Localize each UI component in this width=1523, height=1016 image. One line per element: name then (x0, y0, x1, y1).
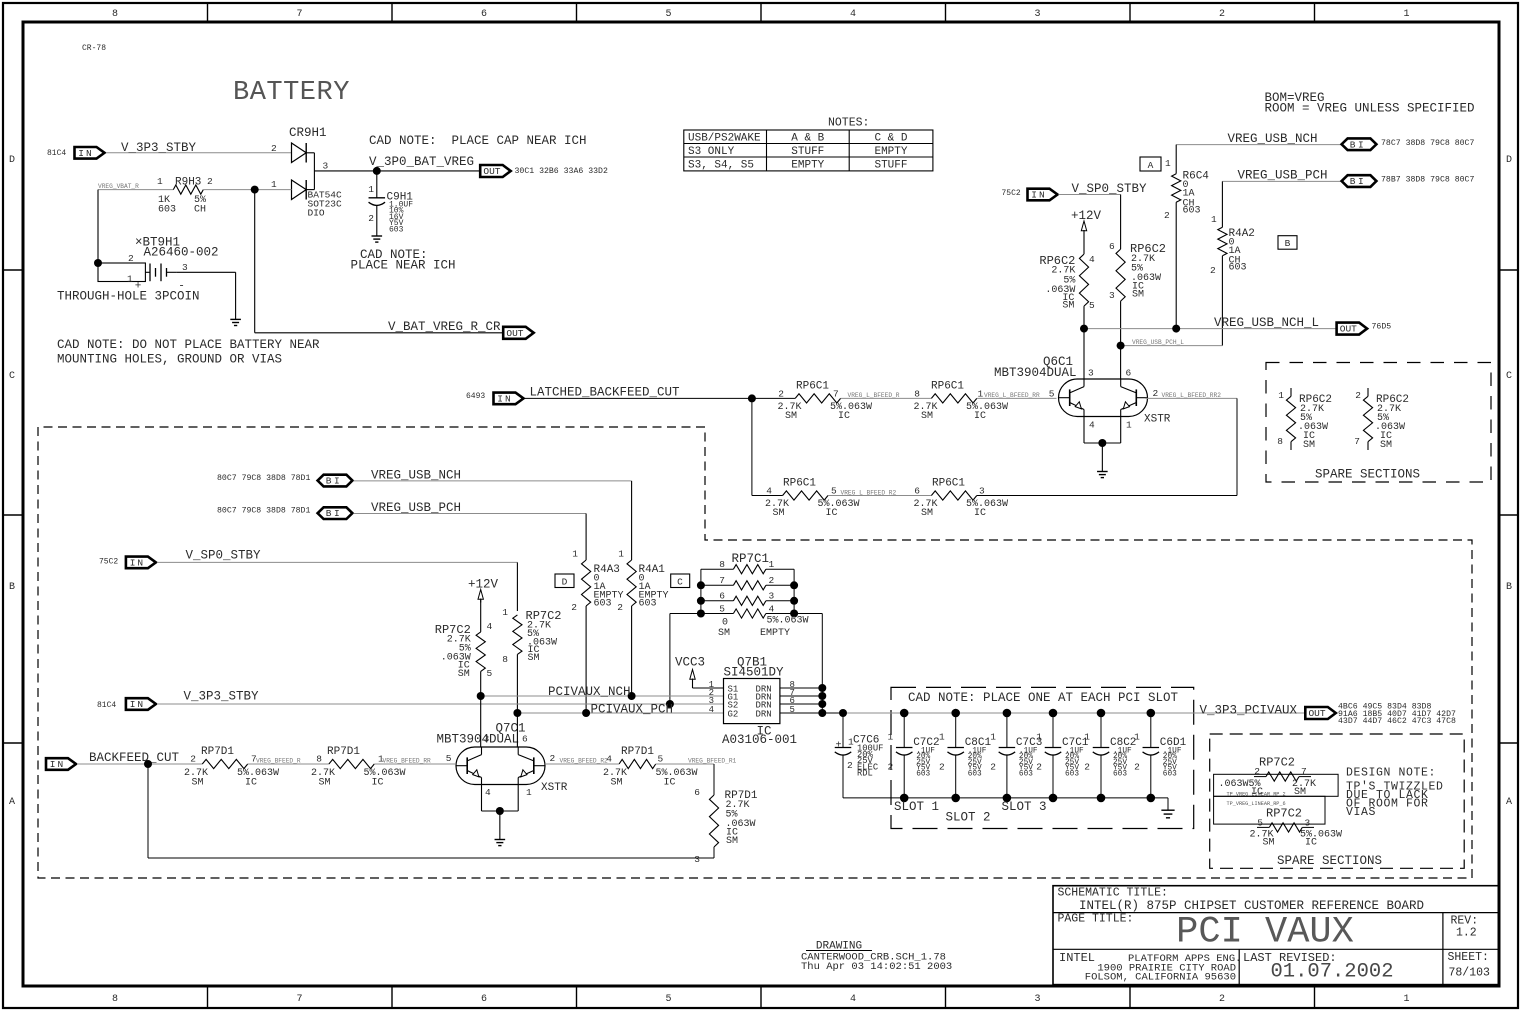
svg-text:SM: SM (319, 778, 331, 789)
wire Q6C1 left collector (1083, 329, 1085, 379)
svg-text:RP7C2: RP7C2 (1266, 807, 1302, 821)
svg-text:C: C (677, 577, 683, 588)
svg-text:1: 1 (939, 732, 945, 743)
svg-text:6493: 6493 (466, 392, 485, 401)
svg-text:SM: SM (785, 411, 797, 422)
svg-text:01.07.2002: 01.07.2002 (1271, 961, 1394, 984)
wire R4A2 down to PCH_L (1221, 256, 1223, 346)
svg-text:BI: BI (326, 508, 342, 519)
svg-text:3: 3 (484, 734, 490, 745)
capacitor C7C1 (1052, 713, 1054, 748)
svg-text:2: 2 (1355, 390, 1361, 401)
wire PCIVAUX_PCH (517, 712, 723, 714)
svg-text:IC: IC (664, 778, 676, 789)
transistor Q6C1 body (1059, 379, 1148, 417)
svg-text:3: 3 (1034, 9, 1040, 20)
svg-text:DESIGN NOTE:: DESIGN NOTE: (1346, 767, 1436, 780)
svg-text:603: 603 (158, 205, 176, 216)
svg-text:4: 4 (709, 705, 714, 715)
wire to slot ground (1167, 798, 1169, 810)
spare resistor RP6C2 section 2-7 (1367, 388, 1369, 396)
resistor RP6C1 section 8-1 (931, 394, 976, 403)
svg-text:5: 5 (665, 994, 671, 1005)
capacitor C8C1 (955, 713, 957, 748)
svg-text:IC: IC (974, 508, 986, 519)
wire backfeed cut (77, 763, 202, 765)
svg-text:43D7 44D7 46C2 47C3 47C8: 43D7 44D7 46C2 47C3 47C8 (1338, 717, 1456, 726)
wire VREG_USB_PCH (1222, 180, 1341, 182)
capacitor C6D1 (1150, 713, 1152, 748)
svg-text:CAD NOTE: PLACE ONE AT EACH PC: CAD NOTE: PLACE ONE AT EACH PCI SLOT (908, 691, 1179, 705)
svg-text:EMPTY: EMPTY (791, 160, 824, 172)
svg-text:6: 6 (719, 591, 725, 602)
svg-text:8: 8 (112, 9, 118, 20)
resistor R4A2 (1218, 227, 1227, 256)
svg-text:1: 1 (1403, 994, 1409, 1005)
spare resistor RP6C2 section 1-8 (1290, 388, 1292, 396)
port IN BACKFEED_CUT (46, 758, 76, 770)
svg-text:+12V: +12V (468, 578, 499, 592)
svg-text:4: 4 (487, 621, 493, 632)
svg-text:VREG_VBAT_R: VREG_VBAT_R (98, 183, 139, 190)
wire to Q6C1 base (977, 397, 1057, 399)
svg-text:81C4: 81C4 (97, 701, 116, 710)
svg-text:CR-78: CR-78 (82, 44, 106, 53)
svg-text:C: C (9, 371, 15, 382)
svg-text:RP7D1: RP7D1 (621, 746, 654, 758)
resistor RP7D1 section 6-3 vertical (709, 795, 718, 847)
svg-text:BI: BI (1350, 139, 1366, 150)
ground under battery (230, 318, 241, 320)
svg-text:IC: IC (372, 778, 384, 789)
svg-text:5%.063W: 5%.063W (966, 499, 1008, 510)
pci slot dashed box (891, 687, 1194, 828)
resistor RP7D1 section 2-7 (202, 759, 247, 768)
RP7C1 right bus (766, 568, 794, 570)
ground pci caps (1161, 809, 1174, 811)
junction at latch split (748, 394, 756, 402)
svg-text:2: 2 (939, 762, 945, 773)
svg-text:SPARE SECTIONS: SPARE SECTIONS (1277, 854, 1382, 868)
svg-text:SM: SM (528, 653, 540, 664)
capacitor C7C2 (903, 713, 905, 748)
svg-text:603: 603 (1065, 771, 1079, 779)
wire RR2 down (1236, 398, 1238, 495)
svg-text:SM: SM (1303, 440, 1315, 451)
ic Q7B1 body (724, 679, 780, 724)
junction dots PCIVAUX_PCH (513, 709, 521, 717)
svg-text:B: B (1285, 238, 1291, 249)
port OUT VREG_USB_NCH_L (1337, 323, 1368, 335)
svg-text:RP6C1: RP6C1 (931, 381, 964, 393)
wire RP6C2a to node (1083, 306, 1085, 329)
wire battery feed vertical (97, 190, 99, 263)
svg-text:5: 5 (1089, 300, 1095, 311)
svg-text:1.2: 1.2 (1456, 927, 1477, 940)
svg-text:8: 8 (316, 754, 322, 765)
column tick marks bottom (207, 986, 209, 1008)
svg-text:IC: IC (245, 778, 257, 789)
svg-text:G2: G2 (728, 709, 739, 719)
section box A (1140, 157, 1161, 171)
pci vaux dashed section outline (38, 427, 1472, 878)
svg-text:2: 2 (1219, 994, 1225, 1005)
svg-text:1: 1 (1165, 158, 1171, 169)
svg-text:2: 2 (778, 389, 784, 400)
wire V_3P0_BAT_VREG to OUT (314, 170, 480, 172)
svg-text:RP7D1: RP7D1 (201, 746, 234, 758)
svg-text:3: 3 (1088, 368, 1094, 379)
svg-text:SM: SM (192, 778, 204, 789)
resistor R6C4 (1172, 174, 1181, 203)
svg-text:2: 2 (271, 143, 277, 154)
svg-text:IN: IN (1031, 190, 1046, 201)
svg-text:IN: IN (497, 393, 512, 404)
svg-text:VIAS: VIAS (1346, 806, 1376, 819)
svg-text:8: 8 (1277, 436, 1283, 447)
svg-text:1: 1 (127, 274, 133, 285)
wire VREG_USB_PCH mid (354, 513, 586, 515)
svg-text:DRN: DRN (756, 709, 772, 719)
svg-text:603: 603 (1113, 771, 1127, 779)
svg-text:30C1 32B6 33A6 33D2: 30C1 32B6 33A6 33D2 (515, 167, 608, 176)
svg-text:2: 2 (368, 213, 374, 224)
svg-text:+: + (835, 741, 841, 752)
bottom cap bus (843, 797, 1168, 799)
svg-text:3: 3 (1034, 994, 1040, 1005)
svg-text:5%.063W: 5%.063W (364, 768, 406, 779)
resistor RP7C2 a (476, 632, 485, 671)
drain bus junctions (818, 684, 826, 692)
svg-text:5%.063W: 5%.063W (237, 768, 279, 779)
wire +12V down (1083, 230, 1085, 254)
wire VCC3 to S1 (692, 679, 694, 689)
svg-text:SM: SM (726, 836, 738, 847)
svg-text:5: 5 (665, 9, 671, 20)
wire V_SP0_STBY (1059, 194, 1121, 196)
capacitor C9H1 wire (376, 171, 378, 198)
svg-text:MBT3904DUAL: MBT3904DUAL (437, 733, 520, 747)
wire Q6C1 right collector (1120, 346, 1122, 379)
row tick marks left and right (3, 269, 23, 271)
svg-text:2: 2 (1219, 9, 1225, 20)
svg-text:Thu Apr 03 14:02:51 2003: Thu Apr 03 14:02:51 2003 (801, 961, 952, 973)
svg-text:SM: SM (611, 778, 623, 789)
svg-text:SM: SM (1132, 290, 1144, 301)
port OUT V_BAT_VREG_R_CR (503, 327, 534, 339)
resistor RP6C1 section 2-7 (795, 394, 840, 403)
svg-text:SM: SM (921, 411, 933, 422)
svg-text:VREG_USB_PCH_L: VREG_USB_PCH_L (1132, 339, 1184, 346)
svg-text:1: 1 (271, 179, 277, 190)
battery BT9H1 holder outline (98, 263, 145, 282)
resistor RP7D1 section 4-5 (619, 759, 656, 768)
svg-text:2: 2 (1164, 210, 1170, 221)
svg-text:2: 2 (1036, 762, 1042, 773)
svg-text:603: 603 (1183, 205, 1201, 216)
svg-text:VREG_USB_NCH: VREG_USB_NCH (1228, 132, 1318, 146)
svg-text:BI: BI (1350, 176, 1366, 187)
svg-text:SLOT 2: SLOT 2 (946, 811, 991, 825)
svg-text:4: 4 (606, 754, 612, 765)
svg-text:VREG_USB_NCH_L: VREG_USB_NCH_L (1214, 316, 1319, 330)
svg-text:USB/PS2WAKE: USB/PS2WAKE (688, 133, 761, 145)
ground of Q6C1 (1097, 471, 1108, 473)
wire between RP6C1 c d (828, 495, 931, 497)
svg-text:603: 603 (1019, 771, 1033, 779)
svg-text:SM: SM (1062, 301, 1074, 312)
svg-text:5%.063W: 5%.063W (966, 402, 1008, 413)
svg-text:CH: CH (194, 205, 206, 216)
wire +12V mid down (480, 599, 482, 632)
svg-text:603: 603 (639, 599, 657, 610)
svg-text:6: 6 (481, 9, 487, 20)
wire VREG_VBAT_R left segment (98, 189, 173, 191)
RP7C1 left bus (701, 568, 734, 570)
svg-text:C & D: C & D (874, 133, 907, 145)
svg-text:MBT3904DUAL: MBT3904DUAL (994, 366, 1077, 380)
wire Q7C1 right base (545, 763, 619, 765)
svg-text:6: 6 (481, 994, 487, 1005)
svg-text:BI: BI (326, 476, 342, 487)
svg-text:RDL: RDL (857, 769, 873, 779)
svg-text:78/103: 78/103 (1449, 967, 1491, 980)
svg-text:2: 2 (1210, 265, 1216, 276)
svg-text:A: A (1148, 160, 1154, 171)
svg-text:3: 3 (1109, 290, 1115, 301)
svg-text:4: 4 (769, 603, 775, 614)
resistor RP7C1 section 8-1 (733, 565, 766, 574)
svg-text:OUT: OUT (1340, 324, 1357, 335)
resistor R9H3 (173, 185, 203, 194)
svg-text:5%.063W: 5%.063W (818, 499, 860, 510)
svg-text:3: 3 (323, 161, 329, 172)
svg-text:EMPTY: EMPTY (874, 146, 907, 158)
svg-text:1: 1 (978, 389, 984, 400)
svg-text:PCIVAUX_NCH: PCIVAUX_NCH (548, 685, 631, 699)
junction backfeed latch (144, 760, 152, 768)
svg-text:3: 3 (769, 591, 775, 602)
svg-text:SM: SM (1380, 440, 1392, 451)
svg-text:OUT: OUT (506, 328, 523, 339)
wire latch feedback (713, 847, 715, 858)
wire V_BAT_VREG_R_CR vertical (254, 190, 256, 333)
svg-text:603: 603 (1229, 263, 1247, 274)
wire down to R4A2 (1221, 181, 1223, 227)
resistor RP6C2 a (1079, 254, 1088, 306)
svg-text:D: D (562, 577, 568, 588)
svg-text:1: 1 (1403, 9, 1409, 20)
svg-text:C: C (1506, 371, 1512, 382)
svg-text:75C2: 75C2 (99, 558, 118, 567)
svg-text:S3 ONLY: S3 ONLY (688, 146, 735, 158)
svg-text:A: A (9, 797, 15, 808)
svg-text:2: 2 (1134, 762, 1140, 773)
wire Q7C1 left collector (480, 696, 482, 747)
svg-text:5: 5 (719, 603, 725, 614)
svg-text:2: 2 (769, 575, 775, 586)
wire RP7C1 row4 to S2 (669, 614, 671, 705)
capacitor C7C6 electrolytic (835, 747, 852, 749)
svg-text:BACKFEED_CUT: BACKFEED_CUT (89, 751, 180, 765)
wire V_BAT_VREG_R_CR horizontal (255, 332, 504, 334)
svg-text:6: 6 (522, 734, 528, 745)
drain bus vertical (821, 688, 823, 713)
wire RP7D1 a-b (248, 763, 329, 765)
svg-text:1: 1 (502, 607, 508, 618)
svg-text:4: 4 (1089, 254, 1095, 265)
svg-text:VREG_L_BFEED_RR2: VREG_L_BFEED_RR2 (1162, 392, 1222, 399)
svg-text:1: 1 (1036, 732, 1042, 743)
svg-text:MOUNTING HOLES, GROUND OR VIAS: MOUNTING HOLES, GROUND OR VIAS (57, 353, 282, 367)
svg-text:2: 2 (887, 762, 893, 773)
wire PCIVAUX_NCH (481, 695, 724, 697)
wire RP7D1c to RP7D1d (656, 763, 714, 765)
wire R9H3 to diode (203, 189, 291, 191)
svg-text:IN: IN (130, 557, 145, 568)
svg-text:603: 603 (968, 771, 982, 779)
svg-text:A: A (1506, 797, 1512, 808)
svg-text:8: 8 (719, 559, 725, 570)
svg-text:A03106-001: A03106-001 (722, 733, 797, 747)
svg-text:STUFF: STUFF (791, 146, 824, 158)
svg-text:OUT: OUT (1308, 708, 1325, 719)
wire VREG_USB_PCH_L (1121, 345, 1223, 347)
svg-text:IC: IC (826, 508, 838, 519)
wire battery pin3 to ground (177, 271, 236, 273)
svg-text:PAGE TITLE:: PAGE TITLE: (1058, 913, 1134, 926)
resistor RP6C2 b (1116, 249, 1125, 301)
port OUT V_3P0_BAT_VREG (480, 165, 511, 177)
wire V_SP0_STBY mid (157, 561, 517, 563)
svg-text:1: 1 (157, 176, 163, 187)
svg-text:SM: SM (1263, 838, 1275, 849)
svg-text:SPARE SECTIONS: SPARE SECTIONS (1315, 468, 1420, 482)
svg-text:CAD NOTE: DO NOT PLACE BATTERY: CAD NOTE: DO NOT PLACE BATTERY NEAR (57, 338, 320, 352)
svg-text:EMPTY: EMPTY (760, 628, 790, 639)
svg-text:VREG_BFEED_RR: VREG_BFEED_RR (383, 758, 432, 765)
svg-text:SHEET:: SHEET: (1448, 951, 1489, 964)
svg-text:D: D (1506, 155, 1512, 166)
title block frame (1053, 886, 1499, 985)
wire Q7C1 right collector (516, 713, 518, 747)
svg-text:3: 3 (1305, 818, 1311, 829)
resistor RP7C2 b (513, 615, 522, 654)
svg-text:VCC3: VCC3 (675, 656, 705, 670)
svg-text:VREG_BFEED_R: VREG_BFEED_R (256, 758, 301, 765)
svg-text:5: 5 (831, 486, 837, 497)
svg-text:1: 1 (368, 184, 374, 195)
capacitor C8C2 (1100, 713, 1102, 748)
wire latch lower branch (752, 495, 783, 497)
section box D (555, 574, 574, 588)
svg-text:7: 7 (719, 575, 725, 586)
tp box 2 (1214, 796, 1325, 824)
svg-text:4: 4 (766, 486, 772, 497)
wire VREG_USB_NCH_L (1084, 328, 1337, 330)
svg-text:PLACE NEAR ICH: PLACE NEAR ICH (351, 258, 456, 272)
svg-text:3: 3 (182, 262, 188, 273)
svg-text:B: B (9, 582, 15, 593)
section box C (671, 574, 690, 588)
svg-text:V_3P0_BAT_VREG: V_3P0_BAT_VREG (369, 155, 474, 169)
svg-text:LATCHED_BACKFEED_CUT: LATCHED_BACKFEED_CUT (530, 385, 681, 399)
svg-text:+12V: +12V (1071, 209, 1102, 223)
svg-text:7: 7 (1354, 436, 1360, 447)
wire latch lower branch vertical (751, 398, 753, 495)
svg-text:VREG_USB_PCH: VREG_USB_PCH (371, 501, 461, 515)
svg-text:IN: IN (50, 759, 65, 770)
port OUT V_3P3_PCIVAUX (1305, 707, 1336, 719)
svg-text:BATTERY: BATTERY (233, 78, 350, 108)
section box B (1278, 236, 1297, 250)
svg-text:XSTR: XSTR (541, 782, 568, 794)
svg-text:78B7 38D8 79C8 80C7: 78B7 38D8 79C8 80C7 (1381, 176, 1474, 185)
svg-text:5%.063W: 5%.063W (656, 768, 698, 779)
svg-text:V_SP0_STBY: V_SP0_STBY (186, 549, 262, 563)
svg-text:SM: SM (773, 508, 785, 519)
svg-text:2: 2 (550, 753, 556, 764)
port BI VREG_USB_PCH (1342, 175, 1377, 187)
svg-text:V_SP0_STBY: V_SP0_STBY (1072, 182, 1148, 196)
svg-text:5%.063W: 5%.063W (767, 616, 809, 627)
battery BT9H1 cells (145, 271, 150, 273)
svg-text:6: 6 (1126, 368, 1132, 379)
transistor Q7C1 body (456, 747, 545, 785)
svg-text:3: 3 (979, 486, 985, 497)
svg-text:IN: IN (130, 699, 145, 710)
svg-text:2: 2 (847, 760, 853, 771)
ic Q7B1 drain wires (780, 687, 822, 689)
wire RP7C1 row4 right down to DRN bus (821, 614, 823, 689)
port BI VREG_USB_PCH mid (318, 507, 353, 519)
junction at battery pin 2 (94, 259, 102, 267)
svg-text:1: 1 (572, 549, 578, 560)
svg-text:7: 7 (1301, 766, 1307, 777)
svg-text:SLOT 3: SLOT 3 (1002, 800, 1047, 814)
diode CR9H1 top half (292, 143, 307, 163)
svg-text:RP7D1: RP7D1 (327, 746, 360, 758)
svg-text:1: 1 (1134, 732, 1140, 743)
wire between RP6C1 a b (841, 397, 932, 399)
svg-text:THROUGH-HOLE 3PCOIN: THROUGH-HOLE 3PCOIN (57, 290, 200, 304)
svg-text:DIO: DIO (308, 208, 325, 219)
wire VREG_USB_NCH (1176, 144, 1341, 146)
wire R6C4 down to node (1175, 202, 1177, 328)
svg-text:RP6C1: RP6C1 (796, 381, 829, 393)
svg-text:78C7 38D8 79C8 80C7: 78C7 38D8 79C8 80C7 (1381, 139, 1474, 148)
svg-text:V_3P3_PCIVAUX: V_3P3_PCIVAUX (1200, 704, 1298, 718)
svg-text:1: 1 (1084, 732, 1090, 743)
svg-text:NOTES:: NOTES: (828, 117, 869, 130)
svg-text:1: 1 (526, 787, 532, 798)
spare sections dashed box upper (1266, 363, 1491, 483)
svg-text:1: 1 (887, 732, 893, 743)
wire lower branch to RR2 drop (977, 495, 1237, 497)
svg-text:7: 7 (296, 994, 302, 1005)
svg-text:4: 4 (850, 994, 856, 1005)
svg-text:SM: SM (921, 508, 933, 519)
wire down to R6C4 (1175, 145, 1177, 174)
svg-text:6: 6 (1109, 241, 1115, 252)
svg-text:5%.063W: 5%.063W (830, 402, 872, 413)
svg-text:RP6C1: RP6C1 (783, 478, 816, 490)
resistor RP7C1 section 6-3 (733, 596, 766, 605)
svg-text:2: 2 (128, 253, 134, 264)
svg-text:2: 2 (1084, 762, 1090, 773)
resistor RP6C1 section 4-5 (783, 491, 828, 500)
svg-text:SM: SM (458, 669, 470, 680)
